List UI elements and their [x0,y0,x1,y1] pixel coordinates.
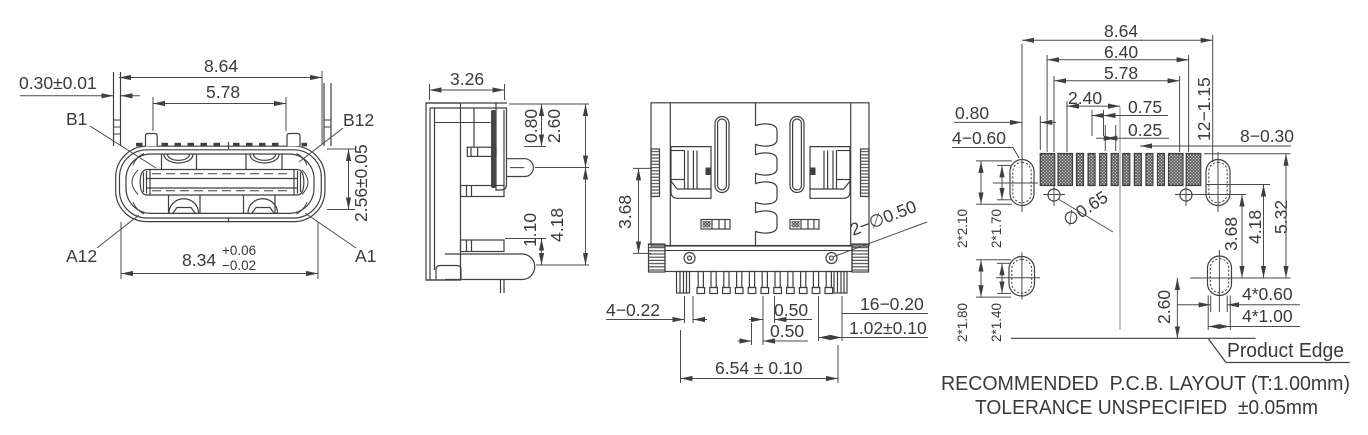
svg-text:2*1.80: 2*1.80 [955,303,970,342]
upper tab [467,147,496,156]
svg-text:0.50: 0.50 [774,300,808,320]
band left cap [649,244,666,272]
right contact box [810,147,850,199]
svg-text:4.18: 4.18 [547,208,567,242]
pin comb [677,272,848,294]
small hatched window left [701,220,730,230]
svg-text:−0.02: −0.02 [222,258,256,273]
lower tab [461,240,505,252]
cavity corner arcs [133,154,144,166]
product edge line [1011,337,1256,339]
svg-text:4*1.00: 4*1.00 [1242,306,1293,326]
body outline [651,103,869,246]
svg-text:6.40: 6.40 [1104,42,1138,62]
VIEW3 top view [606,103,928,383]
center bottom tick [228,218,230,223]
right ext lines [509,103,589,105]
svg-text:4−0.22: 4−0.22 [606,300,660,320]
svg-text:Product Edge: Product Edge [1227,340,1344,362]
left top post [146,134,158,147]
svg-text:16−0.20: 16−0.20 [860,294,924,314]
svg-text:8.64: 8.64 [1104,21,1138,41]
svg-text:2*1.40: 2*1.40 [989,303,1004,342]
svg-text:0.50: 0.50 [770,321,804,341]
vertical plate [496,103,507,190]
body fold lines [669,103,671,246]
svg-text:2.60: 2.60 [544,109,564,143]
svg-text:4−0.60: 4−0.60 [952,128,1006,148]
svg-text:0.80: 0.80 [521,109,541,143]
bottom foot [445,254,535,280]
VIEW1 front view [19,56,376,279]
svg-text:1.02±0.10: 1.02±0.10 [849,318,927,338]
top-left oval pad [1010,160,1034,206]
hole Ø0.65 left [1048,189,1060,201]
svg-text:5.32: 5.32 [1271,200,1291,234]
svg-text:+0.06: +0.06 [222,243,256,258]
svg-text:5.78: 5.78 [1104,63,1138,83]
svg-text:8.64: 8.64 [204,56,238,76]
left retention pin [113,72,115,146]
shell outer [116,146,325,221]
right serrated edge [861,149,870,197]
solder pads row [1040,154,1055,186]
upper contact arcs [164,155,193,164]
svg-text:3.68: 3.68 [615,195,635,229]
svg-text:2*2.10: 2*2.10 [955,209,970,248]
VIEW2 side view [426,69,589,293]
svg-text:4*0.60: 4*0.60 [1242,284,1293,304]
svg-text:3.68: 3.68 [1221,217,1241,251]
svg-text:0.80: 0.80 [955,103,989,123]
tongue dashed contact rows [152,173,292,175]
top serration teeth [136,143,307,147]
svg-text:8.34: 8.34 [182,250,216,270]
cavity opening [126,154,314,213]
svg-text:4.18: 4.18 [1245,210,1265,244]
lower contact arcs [169,199,199,213]
svg-text:A12: A12 [66,246,97,266]
svg-text:0.30±0.01: 0.30±0.01 [19,73,97,93]
svg-text:0.75: 0.75 [1128,97,1162,117]
upper dividers [161,155,163,170]
svg-text:B1: B1 [66,109,87,129]
lower feet [173,208,195,214]
left slot [715,117,729,193]
upper right leg [507,159,534,177]
band rivet right [826,253,837,264]
left end lug arcs [132,170,138,195]
bottom-right oval pad [1208,256,1232,296]
svg-text:2.60: 2.60 [1154,290,1174,324]
svg-text:2*1.70: 2*1.70 [989,209,1004,248]
svg-text:0.25: 0.25 [1128,120,1162,140]
body outline [426,103,461,280]
lower dividers [168,196,170,214]
bottom pin [500,280,502,293]
VIEW4 pcb layout [952,21,1350,363]
band right cap [852,244,869,272]
middle tab [461,186,505,197]
svg-text:5.78: 5.78 [206,82,240,102]
tongue inner band [146,178,298,180]
svg-text:2.40: 2.40 [1068,88,1102,108]
left serrated edge [651,149,660,197]
svg-text:2.56±0.05: 2.56±0.05 [351,144,371,222]
svg-text:8−0.30: 8−0.30 [1240,126,1294,146]
shell inner wall [120,150,322,218]
bottom caption [941,373,1350,419]
top-right oval pad [1206,160,1230,206]
bottom band [665,246,852,272]
tongue [140,170,304,196]
center top tick [228,142,230,149]
svg-text:6.54 ± 0.10: 6.54 ± 0.10 [715,358,803,378]
left contact box [671,147,711,199]
hole Ø0.65 right [1180,189,1192,201]
svg-text:RECOMMENDED P.C.B. LAYOUT (T:: RECOMMENDED P.C.B. LAYOUT (T:1.00mm) [941,373,1350,395]
band rivet left [684,253,695,264]
svg-text:A1: A1 [355,246,376,266]
svg-text:B12: B12 [343,110,374,130]
centerline [1119,107,1121,330]
svg-text:TOLERANCE UNSPECIFIED ±0.05mm: TOLERANCE UNSPECIFIED ±0.05mm [975,397,1318,419]
center seam (wavy interlock) [756,103,778,246]
right top post [287,134,300,147]
svg-text:3.26: 3.26 [450,69,484,89]
bottom-left oval pad [1009,257,1035,297]
svg-text:1.10: 1.10 [520,213,540,247]
small hatched window right [790,220,819,230]
right slot [790,117,804,193]
svg-text:12−1.15: 12−1.15 [1194,77,1214,141]
thin pins [698,272,703,288]
bottom left foot pad [436,266,461,280]
right retention pin [323,83,325,146]
